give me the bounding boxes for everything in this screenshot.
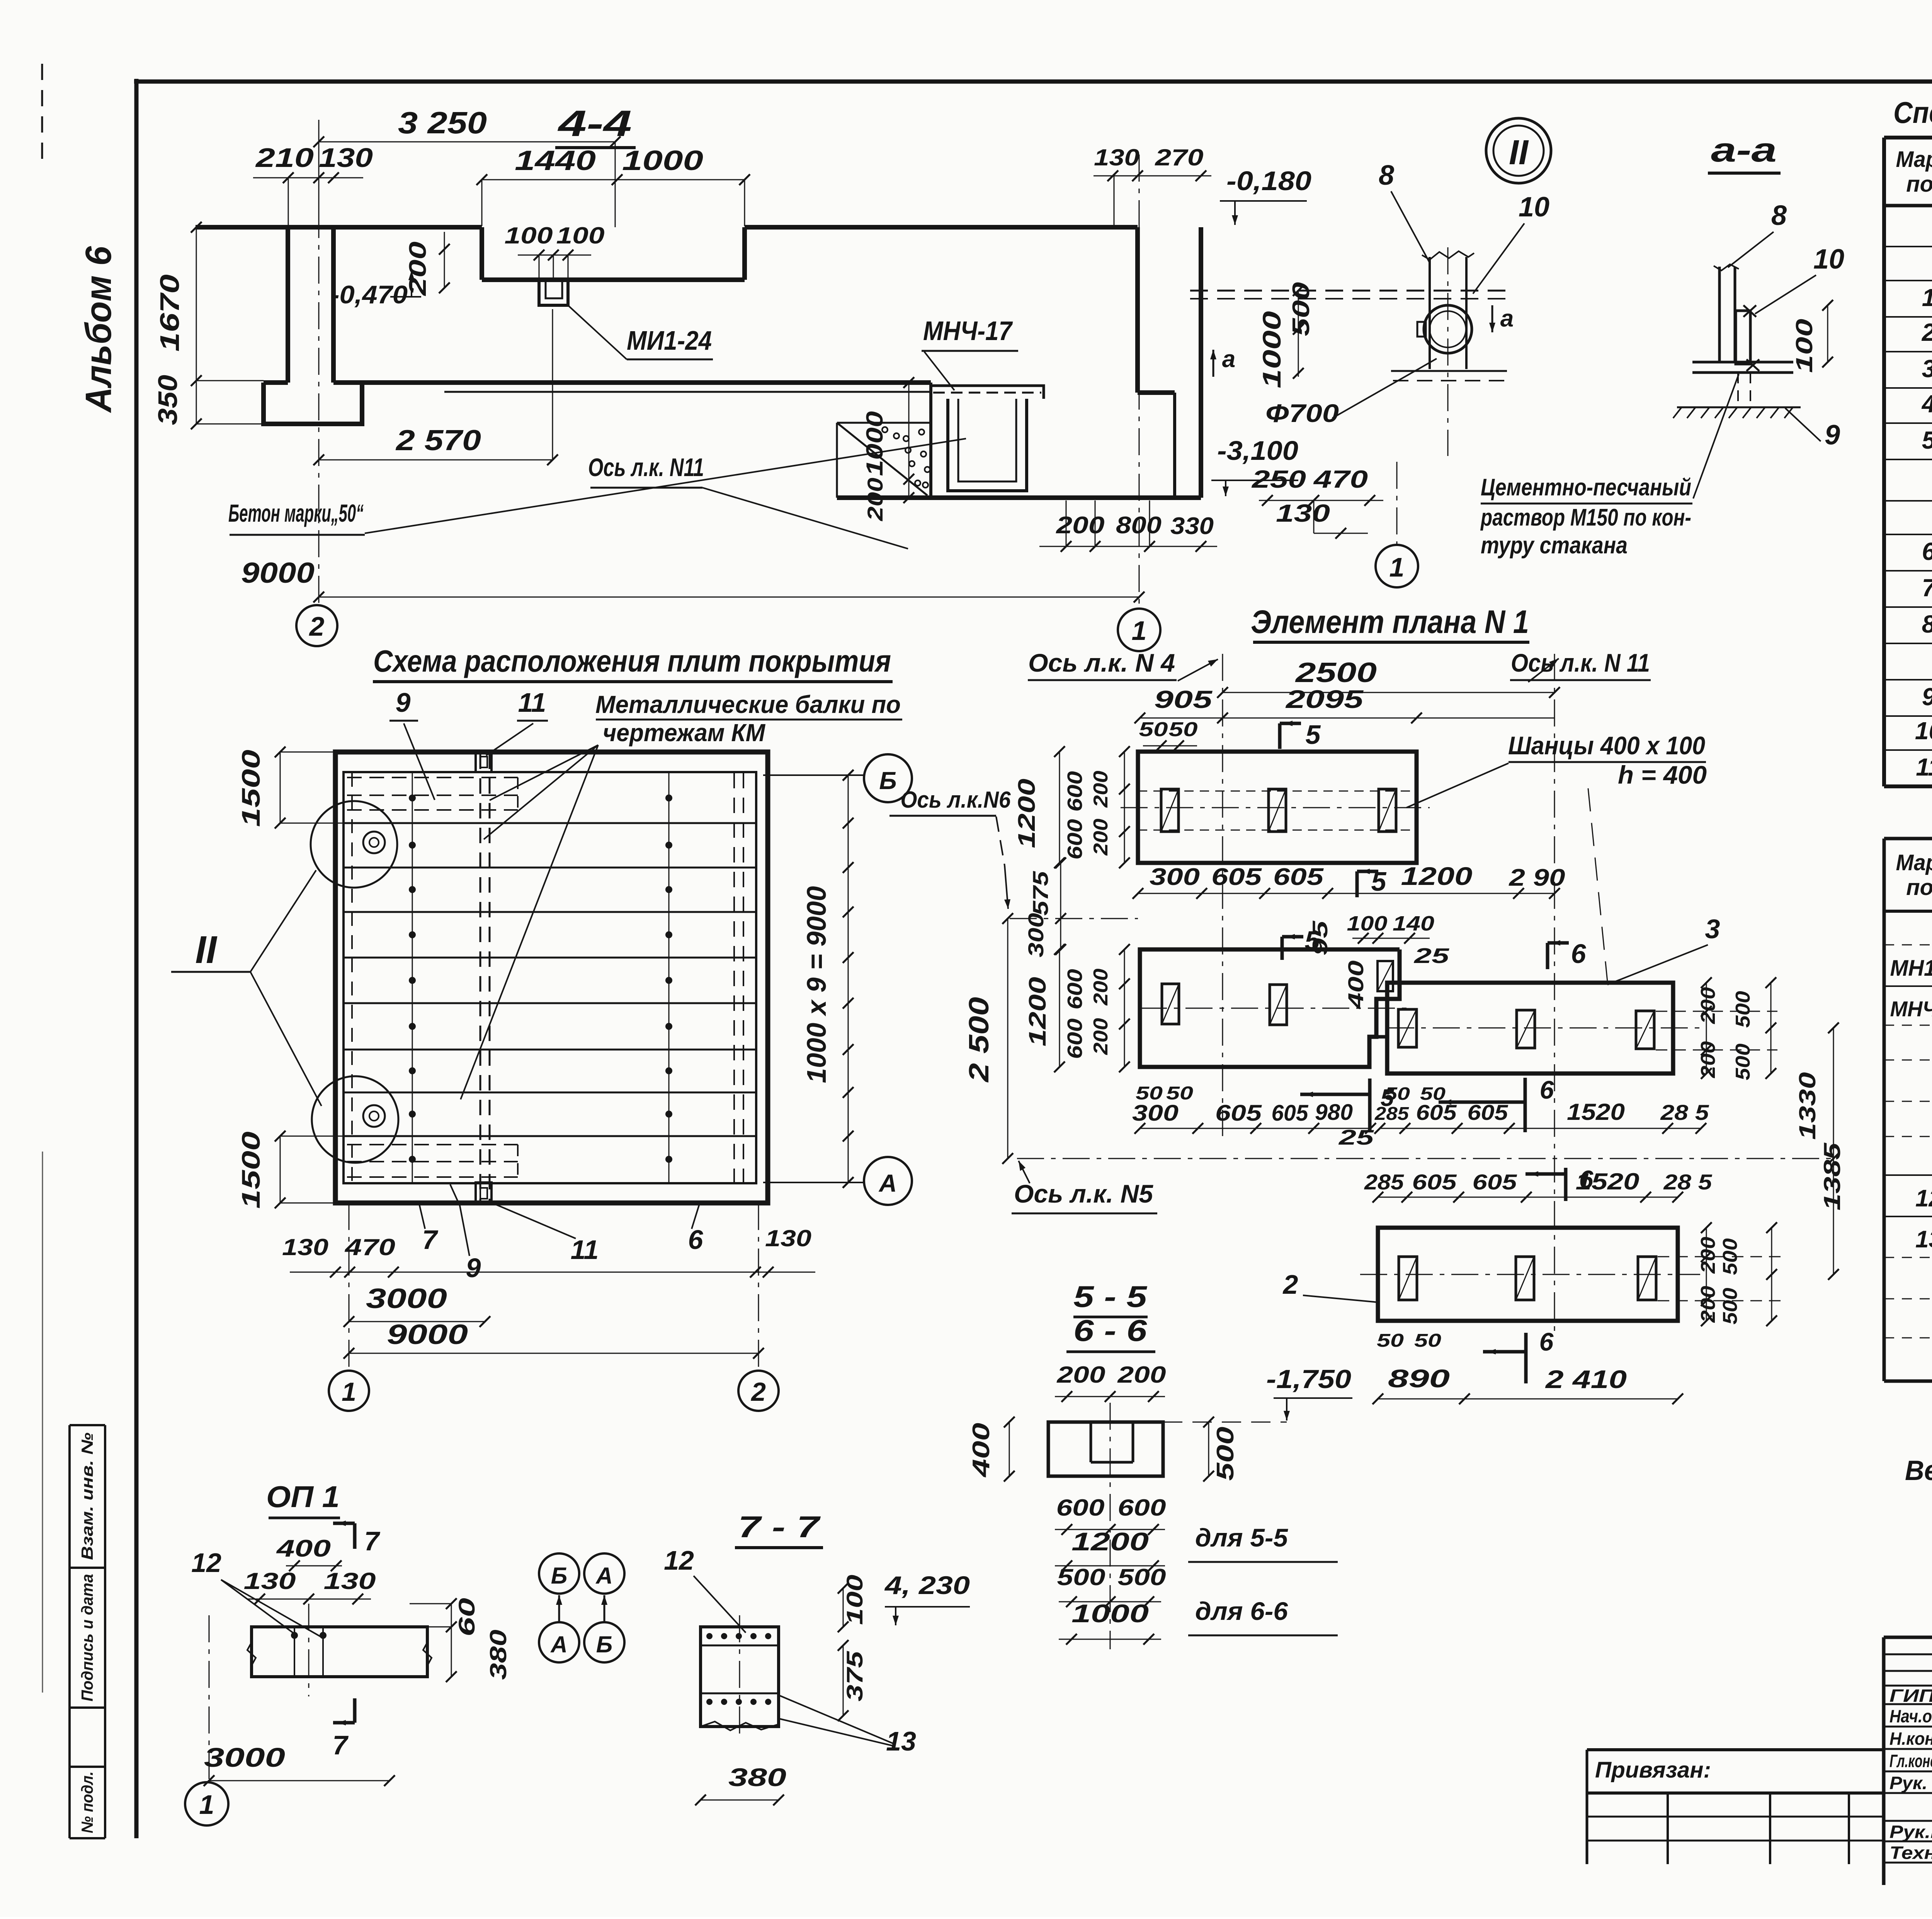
svg-text:605: 605	[1412, 1170, 1457, 1194]
svg-text:Н.контр: Н.контр	[1889, 1728, 1932, 1749]
svg-text:3000: 3000	[204, 1742, 285, 1773]
svg-text:8: 8	[1922, 610, 1932, 638]
svg-text:130: 130	[282, 1234, 328, 1260]
svg-text:Ось л.к.N6: Ось л.к.N6	[901, 787, 1011, 813]
svg-text:Схема расположения плит покрыт: Схема расположения плит покрытия	[373, 644, 891, 678]
svg-text:270: 270	[1155, 145, 1203, 170]
svg-text:Подпись и дата: Подпись и дата	[78, 1574, 96, 1701]
svg-text:210: 210	[255, 143, 314, 173]
svg-text:5: 5	[1371, 866, 1387, 897]
svg-text:11: 11	[571, 1235, 599, 1265]
svg-text:2: 2	[1922, 318, 1932, 346]
svg-text:2500: 2500	[1294, 657, 1377, 688]
svg-text:ГИП: ГИП	[1889, 1686, 1932, 1706]
svg-text:Альбом 6: Альбом 6	[78, 246, 119, 413]
svg-text:50: 50	[1169, 718, 1198, 741]
svg-text:50: 50	[1139, 718, 1168, 741]
svg-text:200: 200	[1090, 771, 1112, 808]
svg-text:605: 605	[1215, 1101, 1262, 1126]
svg-text:6 - 6: 6 - 6	[1073, 1313, 1147, 1347]
svg-text:28 5: 28 5	[1663, 1170, 1712, 1194]
svg-text:5: 5	[1306, 720, 1321, 750]
svg-text:1385: 1385	[1819, 1142, 1845, 1210]
svg-text:3: 3	[1922, 355, 1932, 383]
svg-text:100: 100	[842, 1575, 867, 1625]
svg-text:500: 500	[1057, 1564, 1105, 1590]
svg-text:500: 500	[1719, 1288, 1742, 1324]
svg-text:поз.: поз.	[1906, 875, 1932, 900]
svg-text:1200: 1200	[1071, 1527, 1149, 1556]
svg-text:10: 10	[1915, 717, 1932, 745]
svg-text:10: 10	[1519, 192, 1549, 223]
svg-text:300: 300	[1150, 864, 1200, 890]
svg-text:300: 300	[1024, 913, 1048, 958]
svg-text:890: 890	[1388, 1364, 1450, 1393]
svg-text:100: 100	[1791, 319, 1817, 373]
svg-text:8: 8	[1771, 200, 1787, 231]
svg-text:Ось л.к. N 4: Ось л.к. N 4	[1028, 648, 1175, 677]
svg-text:200: 200	[863, 478, 887, 521]
svg-text:4: 4	[1921, 390, 1932, 418]
svg-text:250: 250	[1252, 465, 1306, 493]
svg-text:50: 50	[1384, 1084, 1410, 1104]
svg-text:13: 13	[1915, 1226, 1932, 1253]
svg-text:Ось л.к. N11: Ось л.к. N11	[588, 453, 704, 481]
svg-text:А: А	[878, 1169, 897, 1197]
svg-text:130: 130	[765, 1225, 811, 1251]
svg-text:2 90: 2 90	[1509, 864, 1565, 891]
svg-text:а-а: а-а	[1711, 131, 1777, 169]
svg-text:600: 600	[1056, 1495, 1105, 1521]
svg-text:9: 9	[1922, 683, 1932, 711]
svg-text:200: 200	[1697, 1237, 1719, 1274]
svg-text:7: 7	[422, 1225, 439, 1255]
svg-text:2: 2	[750, 1377, 766, 1407]
svg-text:МН1-24: МН1-24	[1890, 956, 1932, 981]
svg-text:МНЧ-17: МНЧ-17	[923, 316, 1013, 346]
svg-text:-1,750: -1,750	[1266, 1364, 1351, 1394]
svg-text:Шанцы 400 х 100: Шанцы 400 х 100	[1508, 731, 1705, 760]
svg-text:1200: 1200	[1024, 977, 1051, 1046]
svg-text:1000: 1000	[862, 411, 888, 476]
svg-text:60: 60	[454, 1598, 480, 1637]
svg-text:2 500: 2 500	[964, 997, 995, 1083]
svg-text:-3,100: -3,100	[1217, 436, 1298, 466]
svg-text:Бетон марки„50“: Бетон марки„50“	[228, 499, 364, 527]
svg-text:200: 200	[1056, 512, 1104, 539]
svg-text:130: 130	[319, 143, 373, 173]
svg-text:200: 200	[405, 242, 431, 296]
svg-text:600: 600	[1063, 969, 1087, 1010]
svg-text:6: 6	[688, 1225, 704, 1255]
svg-text:1500: 1500	[236, 1131, 265, 1209]
svg-text:140: 140	[1393, 912, 1434, 935]
svg-text:а: а	[1500, 305, 1514, 332]
svg-text:100: 100	[556, 223, 605, 248]
svg-text:Рук.ГР.: Рук.ГР.	[1889, 1822, 1932, 1842]
svg-text:25: 25	[1414, 944, 1450, 968]
svg-text:1200: 1200	[1401, 862, 1473, 890]
svg-text:50: 50	[1414, 1330, 1441, 1351]
svg-text:туру стакана: туру стакана	[1481, 532, 1628, 559]
svg-text:600: 600	[1063, 1019, 1087, 1059]
svg-text:1: 1	[1922, 284, 1932, 311]
svg-text:200: 200	[1697, 1286, 1719, 1323]
svg-text:МИ1-24: МИ1-24	[627, 325, 712, 356]
svg-text:11: 11	[1916, 753, 1932, 781]
svg-text:600: 600	[1063, 819, 1087, 860]
svg-text:7: 7	[1922, 574, 1932, 602]
svg-text:500: 500	[1118, 1564, 1166, 1590]
svg-text:раствор М150 по кон-: раствор М150 по кон-	[1480, 504, 1691, 531]
svg-text:1000: 1000	[1071, 1599, 1149, 1628]
svg-text:7: 7	[364, 1526, 381, 1556]
svg-text:300: 300	[1132, 1101, 1179, 1126]
svg-text:1: 1	[1132, 616, 1147, 646]
svg-text:11: 11	[518, 687, 546, 718]
svg-text:2: 2	[1282, 1269, 1298, 1300]
svg-text:4, 230: 4, 230	[884, 1571, 970, 1599]
svg-text:1000 х 9 = 9000: 1000 х 9 = 9000	[801, 886, 832, 1083]
svg-text:Металлические балки по: Металлические балки по	[595, 691, 901, 718]
svg-text:400: 400	[968, 1423, 995, 1478]
svg-text:Ведомость расходи стали смо: Ведомость расходи стали смотрите на лист…	[1905, 1455, 1932, 1486]
svg-text:100: 100	[505, 223, 553, 248]
svg-text:7 - 7: 7 - 7	[738, 1510, 821, 1544]
svg-text:ОП 1: ОП 1	[266, 1480, 340, 1514]
svg-text:Ось л.к. N5: Ось л.к. N5	[1014, 1179, 1153, 1208]
svg-text:130: 130	[324, 1568, 376, 1594]
svg-text:470: 470	[345, 1234, 395, 1260]
svg-text:Взам. инв. №: Взам. инв. №	[78, 1432, 96, 1560]
svg-text:285: 285	[1364, 1170, 1404, 1194]
svg-text:605: 605	[1273, 864, 1324, 890]
svg-text:200: 200	[1117, 1362, 1166, 1388]
svg-text:500: 500	[1212, 1427, 1239, 1481]
svg-text:95: 95	[1308, 920, 1332, 956]
svg-text:9000: 9000	[241, 556, 315, 589]
svg-text:25: 25	[1338, 1125, 1375, 1149]
svg-text:для 5-5: для 5-5	[1195, 1523, 1288, 1552]
svg-text:1: 1	[199, 1790, 214, 1820]
svg-text:Б: Б	[879, 767, 896, 794]
svg-text:200: 200	[1697, 1041, 1719, 1078]
svg-text:Ф700: Ф700	[1265, 399, 1339, 427]
svg-text:1: 1	[1389, 552, 1405, 582]
svg-text:Нач.отд.: Нач.отд.	[1889, 1706, 1932, 1726]
svg-text:6: 6	[1539, 1327, 1554, 1356]
svg-text:для 6-6: для 6-6	[1195, 1597, 1288, 1625]
svg-text:10: 10	[1813, 244, 1844, 275]
svg-text:600: 600	[1118, 1495, 1166, 1521]
svg-text:200: 200	[1090, 968, 1112, 1005]
svg-text:200: 200	[1090, 818, 1112, 856]
svg-text:600: 600	[1063, 771, 1087, 812]
svg-text:9: 9	[396, 687, 411, 718]
svg-text:-0,470: -0,470	[330, 280, 408, 309]
svg-text:5: 5	[1922, 426, 1932, 454]
svg-text:5 - 5: 5 - 5	[1073, 1279, 1148, 1313]
svg-text:Привязан:: Привязан:	[1595, 1757, 1711, 1783]
svg-text:7: 7	[333, 1730, 349, 1760]
svg-text:-0,180: -0,180	[1226, 166, 1311, 196]
svg-text:575: 575	[1028, 871, 1053, 915]
svg-text:Спецификация к схеме расположе: Спецификация к схеме расположения констр…	[1893, 95, 1932, 129]
svg-text:2 410: 2 410	[1544, 1365, 1627, 1393]
svg-text:500: 500	[1288, 282, 1315, 336]
svg-text:200: 200	[1090, 1018, 1112, 1055]
svg-text:1000: 1000	[1257, 311, 1286, 388]
svg-text:2095: 2095	[1285, 685, 1364, 713]
svg-text:12: 12	[191, 1548, 221, 1578]
svg-text:6: 6	[1571, 939, 1587, 969]
svg-text:9: 9	[1825, 420, 1840, 451]
svg-text:605: 605	[1473, 1170, 1517, 1194]
svg-text:1200: 1200	[1014, 779, 1040, 848]
svg-text:3 250: 3 250	[398, 105, 487, 140]
svg-text:500: 500	[1719, 1238, 1742, 1275]
svg-text:3: 3	[1705, 914, 1720, 944]
svg-text:905: 905	[1154, 686, 1213, 713]
svg-text:200: 200	[1056, 1362, 1105, 1388]
svg-text:285: 285	[1374, 1104, 1410, 1124]
svg-text:Рук. ГР.: Рук. ГР.	[1889, 1773, 1932, 1793]
svg-text:1000: 1000	[622, 145, 703, 176]
svg-text:Б: Б	[596, 1631, 612, 1657]
svg-text:Гл.констр.: Гл.констр.	[1889, 1751, 1932, 1771]
svg-text:Ось л.к. N 11: Ось л.к. N 11	[1511, 648, 1650, 677]
svg-text:№ подл.: № подл.	[78, 1771, 96, 1833]
svg-text:чертежам КМ: чертежам КМ	[603, 719, 766, 747]
svg-text:II: II	[1509, 133, 1529, 172]
svg-text:130: 130	[1094, 145, 1139, 170]
svg-text:470: 470	[1313, 465, 1368, 493]
svg-text:200: 200	[1697, 987, 1719, 1024]
svg-text:12: 12	[664, 1545, 694, 1575]
svg-text:МНЧ-17: МНЧ-17	[1890, 997, 1932, 1021]
svg-text:3000: 3000	[366, 1283, 447, 1314]
svg-text:2 570: 2 570	[395, 424, 481, 456]
svg-text:4-4: 4-4	[557, 103, 632, 144]
svg-text:1500: 1500	[236, 750, 265, 827]
svg-text:6: 6	[1540, 1075, 1554, 1104]
svg-text:50: 50	[1377, 1330, 1404, 1351]
svg-text:1670: 1670	[155, 274, 185, 352]
svg-text:1440: 1440	[515, 145, 596, 176]
svg-text:380: 380	[485, 1630, 511, 1680]
svg-text:330: 330	[1170, 513, 1214, 539]
svg-text:605: 605	[1272, 1101, 1309, 1126]
svg-text:605: 605	[1211, 864, 1262, 890]
svg-text:130: 130	[1276, 499, 1330, 527]
svg-text:II: II	[195, 928, 218, 971]
svg-text:А: А	[595, 1563, 612, 1589]
svg-text:9000: 9000	[387, 1319, 468, 1350]
svg-text:400: 400	[276, 1535, 331, 1562]
svg-text:1330: 1330	[1794, 1072, 1820, 1140]
svg-text:9: 9	[466, 1253, 481, 1283]
svg-text:12: 12	[1915, 1185, 1932, 1212]
svg-text:Элемент плана N 1: Элемент плана N 1	[1251, 604, 1529, 640]
svg-text:Марка: Марка	[1896, 147, 1932, 172]
svg-text:350: 350	[153, 375, 183, 425]
svg-text:500: 500	[1732, 991, 1754, 1028]
svg-text:Марка: Марка	[1896, 850, 1932, 875]
svg-text:2: 2	[309, 611, 325, 641]
svg-text:13: 13	[886, 1726, 916, 1756]
svg-text:130: 130	[244, 1568, 296, 1594]
svg-text:380: 380	[728, 1763, 786, 1791]
svg-text:А: А	[550, 1631, 567, 1657]
svg-text:8: 8	[1379, 160, 1394, 191]
svg-text:28 5: 28 5	[1660, 1100, 1709, 1125]
svg-text:h = 400: h = 400	[1618, 760, 1707, 789]
svg-text:поз.: поз.	[1906, 172, 1932, 197]
svg-text:а: а	[1222, 346, 1235, 373]
svg-text:Б: Б	[551, 1563, 567, 1589]
svg-text:400: 400	[1344, 961, 1368, 1009]
svg-text:100: 100	[1347, 912, 1388, 935]
svg-text:375: 375	[842, 1651, 867, 1701]
svg-text:Техник: Техник	[1889, 1843, 1932, 1863]
svg-text:1: 1	[342, 1377, 356, 1407]
svg-text:6: 6	[1579, 1165, 1594, 1194]
svg-text:6: 6	[1922, 538, 1932, 565]
svg-text:Цементно-песчаный: Цементно-песчаный	[1481, 474, 1691, 501]
svg-text:1520: 1520	[1567, 1099, 1625, 1125]
svg-text:500: 500	[1732, 1043, 1754, 1080]
svg-text:980: 980	[1315, 1100, 1353, 1125]
